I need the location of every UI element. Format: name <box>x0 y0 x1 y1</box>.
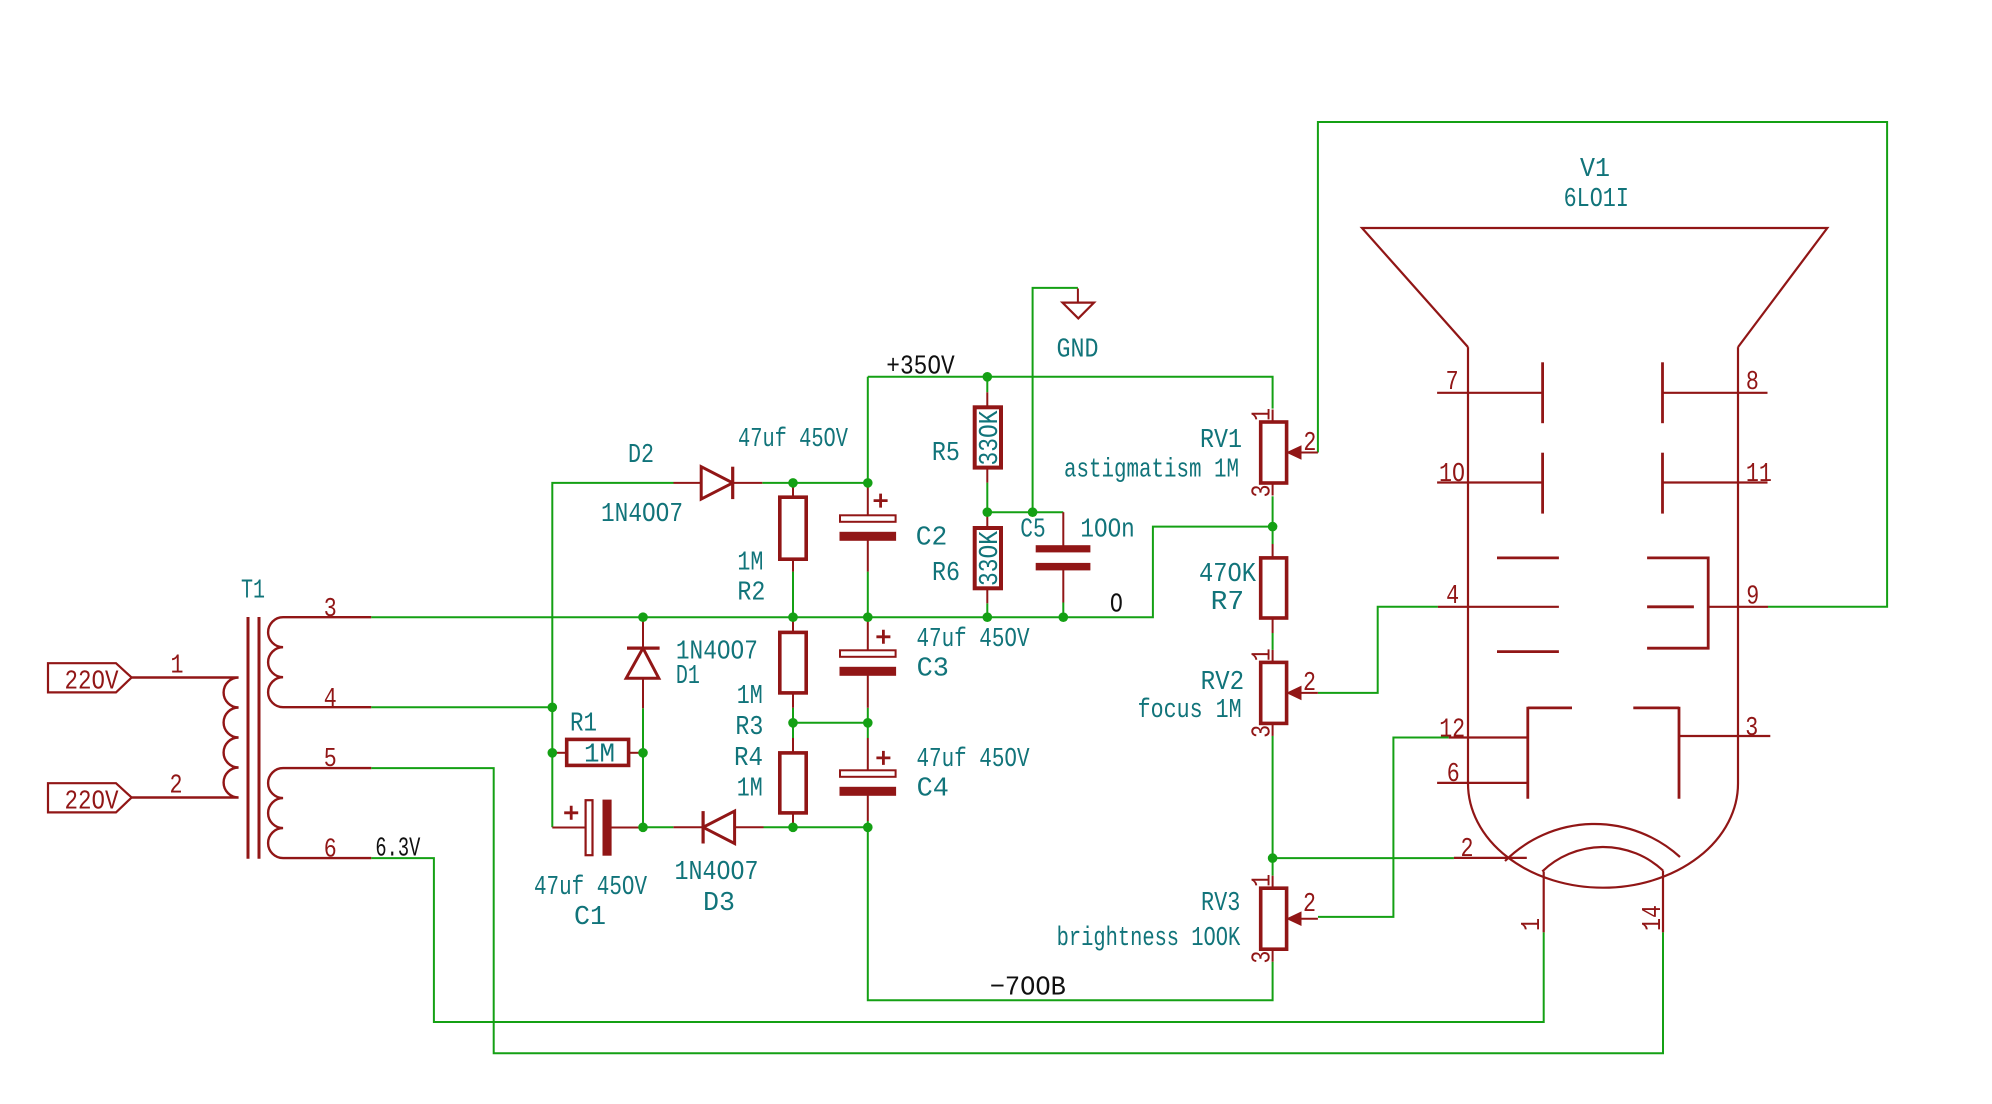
svg-text:C4: C4 <box>917 774 949 804</box>
tube pin 2 cathode lead <box>1454 857 1527 859</box>
tube pin 9 anode <box>1647 558 1768 648</box>
wire R4 top <box>792 723 794 738</box>
tube V1 base dome outer <box>1505 824 1680 861</box>
transformer T1 label <box>241 576 265 606</box>
value 47uf 450V (C4) <box>917 744 1030 774</box>
label D2 <box>628 440 654 470</box>
wire D2 cathode segment <box>762 482 868 484</box>
resistor R4 1M <box>780 738 806 827</box>
svg-text:3: 3 <box>1745 713 1758 743</box>
wire left column (D2 anode down to C1) <box>552 483 673 827</box>
svg-text:1: 1 <box>1247 408 1277 421</box>
label RV1 <box>1200 425 1242 455</box>
svg-text:RV2: RV2 <box>1201 667 1245 697</box>
svg-text:R7: R7 <box>1211 587 1245 617</box>
input port P1 220V <box>48 663 132 697</box>
wire mid rail R3/C3 bottom <box>793 722 868 724</box>
junction node 16 <box>638 823 648 833</box>
svg-text:3: 3 <box>324 594 337 624</box>
junction node 9 <box>638 612 648 622</box>
junction node 4 <box>983 507 993 517</box>
wire R5 bottom <box>986 483 988 513</box>
net label +350V <box>886 353 955 383</box>
pin number 1 (RV1) <box>1247 408 1277 421</box>
tube pin 10 deflection plate <box>1437 453 1543 514</box>
junction node 17 <box>788 823 798 833</box>
svg-text:6LO1I: 6LO1I <box>1564 184 1629 214</box>
svg-text:−7OOB: −7OOB <box>990 974 1066 1004</box>
svg-text:R3: R3 <box>735 712 763 742</box>
label RV2 <box>1201 667 1245 697</box>
svg-text:6.3V: 6.3V <box>375 835 420 865</box>
net label -700B <box>990 974 1066 1004</box>
svg-text:3: 3 <box>1247 725 1277 738</box>
svg-text:GND: GND <box>1057 335 1099 365</box>
wire bottom rail D3 to C4 node <box>793 826 868 828</box>
pin number 3 (RV1) <box>1247 485 1277 498</box>
potentiometer RV2 focus 1M <box>1261 650 1318 736</box>
junction node 3 <box>863 478 873 488</box>
value 47uf 450V (C2) <box>738 424 848 454</box>
pin number 4 (T1) <box>324 684 337 714</box>
wire cathode node to tube pin2 <box>1273 857 1454 859</box>
pin number 14 <box>1638 905 1668 931</box>
potentiometer RV3 brightness 100K <box>1261 876 1318 962</box>
tube pin 7 deflection plate <box>1437 362 1543 423</box>
label R4 <box>734 743 763 773</box>
wire D1 anode column <box>642 708 644 827</box>
svg-text:4: 4 <box>324 684 337 714</box>
pin number 10 <box>1439 459 1465 489</box>
pin number 3 (T1) <box>324 594 337 624</box>
junction node 11 <box>863 612 873 622</box>
svg-text:12: 12 <box>1439 714 1465 744</box>
svg-text:3: 3 <box>1247 485 1277 498</box>
resistor R2 1M <box>780 483 806 572</box>
svg-text:C5: C5 <box>1020 515 1045 545</box>
tube pin 14 heater lead <box>1662 871 1664 933</box>
junction node 5 <box>1028 507 1038 517</box>
svg-text:5: 5 <box>324 744 337 774</box>
capacitor C3 47uf 450V <box>840 617 896 708</box>
svg-text:D2: D2 <box>628 440 654 470</box>
junction node 1 <box>983 372 993 382</box>
diode D2 1N4007 <box>674 467 763 499</box>
pin number 1 (port P1) <box>171 651 184 681</box>
wire R3 bottom <box>792 708 794 723</box>
label C3 <box>917 654 949 684</box>
label R6 <box>932 558 960 588</box>
svg-text:47uf 45OV: 47uf 45OV <box>738 424 848 454</box>
capacitor C1 47uf 450V <box>552 800 643 855</box>
resistor R6 330K <box>975 512 1001 603</box>
tube pin 3 electrode <box>1633 707 1770 799</box>
pin number 6 (V1) <box>1447 759 1460 789</box>
pin number 1 (V1) <box>1517 918 1547 931</box>
value focus 1M <box>1138 695 1242 725</box>
capacitor C2 47uf 450V <box>840 483 896 572</box>
net label GND <box>1057 335 1099 365</box>
wire heater 6.3V (pin6) <box>371 858 1543 1022</box>
pin number 2 (RV2) <box>1303 668 1316 698</box>
svg-text:1M: 1M <box>737 681 763 711</box>
diode D1 1N4007 <box>626 617 659 708</box>
wire T1 pin4 to node <box>371 706 552 708</box>
tube pin 1 heater lead <box>1543 872 1545 933</box>
label C2 <box>916 523 948 553</box>
junction node 13 <box>1059 612 1069 622</box>
value astigmatism 1M <box>1064 455 1239 485</box>
value 1M (R3) <box>737 681 763 711</box>
tube pin 12 electrode <box>1449 707 1572 799</box>
pin number 2 (RV3) <box>1303 889 1316 919</box>
resistor R3 1M <box>780 617 806 708</box>
capacitor C5 100n <box>1036 512 1090 602</box>
pin number 3 (V1) <box>1745 713 1758 743</box>
svg-text:6: 6 <box>324 834 337 864</box>
value 330K (R6) <box>975 531 1005 586</box>
label R7 <box>1211 587 1245 617</box>
svg-text:brightness 1OOK: brightness 1OOK <box>1057 923 1241 953</box>
junction node 10 <box>788 612 798 622</box>
svg-text:focus 1M: focus 1M <box>1138 695 1242 725</box>
svg-text:1: 1 <box>1247 874 1277 887</box>
svg-text:33OK: 33OK <box>975 531 1005 586</box>
wire R5/R6 node to C5 <box>987 511 1063 513</box>
junction node 18 <box>863 823 873 833</box>
transformer T1 secondary winding 3-4 <box>268 617 371 707</box>
svg-text:1: 1 <box>171 651 184 681</box>
svg-text:V1: V1 <box>1580 154 1610 184</box>
svg-text:1M: 1M <box>584 740 615 770</box>
svg-text:1: 1 <box>1247 648 1277 661</box>
svg-text:T1: T1 <box>241 576 265 606</box>
net label 0 <box>1110 591 1123 621</box>
pin number 1 (RV3) <box>1247 874 1277 887</box>
value 1M (R1) <box>584 740 615 770</box>
junction node 7 <box>548 748 558 758</box>
value 470K (R7) <box>1199 559 1256 589</box>
transformer T1 primary winding <box>132 678 239 798</box>
svg-text:22OV: 22OV <box>65 788 120 818</box>
wire C4 bottom <box>867 821 869 827</box>
svg-text:2: 2 <box>1303 889 1316 919</box>
junction node 2 <box>788 478 798 488</box>
svg-text:47uf 45OV: 47uf 45OV <box>534 872 647 902</box>
value 47uf 450V (C3) <box>917 624 1030 654</box>
junction node 19 <box>1268 522 1278 532</box>
svg-text:astigmatism 1M: astigmatism 1M <box>1064 455 1239 485</box>
potentiometer RV1 astigmatism 1M <box>1261 410 1318 496</box>
resistor R1 1M <box>552 739 643 765</box>
resistor R5 330K <box>975 392 1001 482</box>
svg-text:C2: C2 <box>916 523 948 553</box>
svg-text:2: 2 <box>170 771 183 801</box>
ground symbol GND <box>1063 289 1095 319</box>
tube pin 11 deflection plate <box>1663 453 1768 514</box>
pin number 3 (RV2) <box>1247 725 1277 738</box>
svg-text:D1: D1 <box>676 661 700 691</box>
svg-text:9: 9 <box>1746 581 1759 611</box>
svg-text:D3: D3 <box>703 888 735 918</box>
net label 6.3V <box>375 835 420 865</box>
junction node 14 <box>788 718 798 728</box>
wire C4 top <box>867 723 869 738</box>
value 1M (R2) <box>737 548 763 578</box>
value 1M (R4) <box>737 774 763 804</box>
svg-text:R5: R5 <box>932 438 960 468</box>
label V1 <box>1580 154 1610 184</box>
label D3 <box>703 888 735 918</box>
wire C3 bottom <box>867 708 869 723</box>
svg-text:C1: C1 <box>574 902 606 932</box>
label C4 <box>917 774 949 804</box>
svg-text:33OK: 33OK <box>975 410 1005 465</box>
tube V1 base dome inner <box>1542 847 1663 871</box>
junction node 8 <box>638 748 648 758</box>
tube pin 8 deflection plate <box>1663 362 1768 423</box>
svg-text:RV3: RV3 <box>1201 888 1240 918</box>
value 100n (C5) <box>1080 515 1134 545</box>
value 330K (R5) <box>975 410 1005 465</box>
wire heater (pin5) <box>371 768 1663 1053</box>
pin number 8 <box>1746 367 1759 397</box>
junction node 20 <box>1268 853 1278 863</box>
svg-text:14: 14 <box>1638 905 1668 931</box>
value 6LO1I <box>1564 184 1629 214</box>
wire 0-net horizontal (pin3 to R7 col) <box>371 527 1272 618</box>
label RV3 <box>1201 888 1240 918</box>
svg-text:1N4OO7: 1N4OO7 <box>601 499 683 529</box>
wire C5 bottom <box>1062 603 1064 618</box>
pin number 6 (T1) <box>324 834 337 864</box>
pin number 12 <box>1439 714 1465 744</box>
diode D3 1N4007 <box>643 811 793 843</box>
label R5 <box>932 438 960 468</box>
capacitor C4 47uf 450V <box>840 738 896 821</box>
pin number 1 (RV2) <box>1247 648 1277 661</box>
label R1 <box>570 708 597 738</box>
wire -700B run <box>868 827 1273 1000</box>
junction node 15 <box>863 718 873 728</box>
svg-text:1N4OO7: 1N4OO7 <box>675 857 759 887</box>
svg-text:O: O <box>1110 591 1123 621</box>
tube V1 envelope funnel <box>1362 228 1827 347</box>
wire R6 bottom <box>986 603 988 617</box>
svg-text:6: 6 <box>1447 759 1460 789</box>
svg-text:R4: R4 <box>734 743 763 773</box>
pin number 3 (RV3) <box>1247 951 1277 964</box>
label 1N4007 (D3) <box>675 857 759 887</box>
pin number 11 <box>1746 459 1772 489</box>
svg-text:RV1: RV1 <box>1200 425 1242 455</box>
svg-text:4: 4 <box>1446 581 1459 611</box>
svg-text:2: 2 <box>1303 428 1316 458</box>
svg-text:1: 1 <box>1517 918 1547 931</box>
pin number 7 <box>1446 367 1459 397</box>
svg-text:3: 3 <box>1247 951 1277 964</box>
pin number 2 (RV1) <box>1303 428 1316 458</box>
tube V1 bulb bottom <box>1468 784 1738 888</box>
wire R2 bottom <box>792 572 794 618</box>
wire RV1 wiper loop to tube pin9 <box>1318 122 1887 607</box>
wire RV2 wiper to tube pin4 <box>1318 607 1438 693</box>
pin number 9 <box>1746 581 1759 611</box>
value 47uf 450V (C1) <box>534 872 647 902</box>
pin number 2 (port P2) <box>170 771 183 801</box>
wire GND stem <box>1033 288 1078 512</box>
junction node 6 <box>548 703 558 713</box>
tube pin 6 stub <box>1437 782 1528 784</box>
label R3 <box>735 712 763 742</box>
pin number 4 (V1) <box>1446 581 1459 611</box>
label 1N4007 (D2) <box>601 499 683 529</box>
svg-text:47uf 45OV: 47uf 45OV <box>917 624 1030 654</box>
svg-text:47OK: 47OK <box>1199 559 1256 589</box>
tube pin 4 grid <box>1438 558 1559 652</box>
svg-text:8: 8 <box>1746 367 1759 397</box>
wire RV3 wiper to tube pin12 <box>1318 738 1449 917</box>
wire D2 cathode to +350V corner <box>867 377 869 483</box>
tube V1 neck <box>1468 347 1738 783</box>
label C5 <box>1020 515 1045 545</box>
svg-text:R2: R2 <box>737 577 765 607</box>
transformer T1 core <box>248 617 259 859</box>
svg-text:+35OV: +35OV <box>886 353 955 383</box>
junction node 12 <box>983 612 993 622</box>
label R2 <box>737 577 765 607</box>
value brightness 100K <box>1057 923 1241 953</box>
wire C2 bottom <box>867 572 869 618</box>
wire +350V rail <box>868 377 1273 409</box>
svg-text:22OV: 22OV <box>65 668 120 698</box>
label C1 <box>574 902 606 932</box>
input port P2 220V <box>48 783 132 817</box>
svg-text:2: 2 <box>1303 668 1316 698</box>
svg-text:2: 2 <box>1461 834 1474 864</box>
resistor R7 470K <box>1261 544 1287 633</box>
transformer T1 secondary winding 5-6 <box>268 768 371 858</box>
pin number 5 (T1) <box>324 744 337 774</box>
svg-text:7: 7 <box>1446 367 1459 397</box>
label D1 <box>676 661 700 691</box>
svg-text:C3: C3 <box>917 654 949 684</box>
svg-text:R1: R1 <box>570 708 597 738</box>
svg-text:11: 11 <box>1746 459 1772 489</box>
svg-text:1OOn: 1OOn <box>1080 515 1134 545</box>
svg-text:1M: 1M <box>737 774 763 804</box>
svg-text:1M: 1M <box>737 548 763 578</box>
label 1N4007 (D1) <box>676 637 758 667</box>
wire RV column (RV1 pin3 - RV2 - RV3) <box>1272 496 1274 875</box>
svg-text:47uf 45OV: 47uf 45OV <box>917 744 1030 774</box>
wire R5 top <box>986 377 988 393</box>
svg-text:1O: 1O <box>1439 459 1465 489</box>
pin number 2 (V1) <box>1461 834 1474 864</box>
svg-text:R6: R6 <box>932 558 960 588</box>
